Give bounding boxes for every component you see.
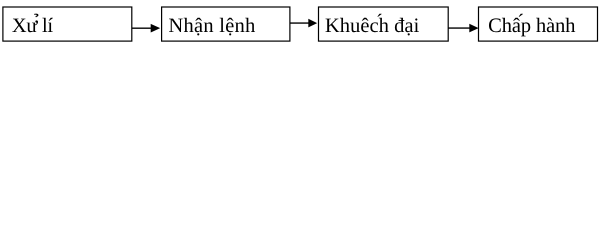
block box B2 (Nhan lenh) — [162, 7, 290, 41]
label "Khuech dai" — [326, 14, 419, 36]
label "Xu li" — [12, 14, 53, 33]
wire arrow shaft B3->B4 — [448, 27, 471, 29]
label "Chap hanh" — [489, 14, 575, 37]
block box B1 (Xu li) — [3, 7, 132, 41]
label "Nhan lenh" — [169, 18, 255, 36]
block box B3 (Khuech dai) — [319, 7, 449, 41]
wire arrow shaft B2->B3 — [290, 22, 310, 24]
arrowhead B2->B3 — [308, 19, 317, 28]
arrowhead B3->B4 — [469, 24, 478, 33]
wire arrow shaft B1->B2 — [132, 27, 152, 29]
block box B4 (Chap hanh) — [479, 7, 598, 41]
arrowhead B1->B2 — [151, 24, 161, 33]
